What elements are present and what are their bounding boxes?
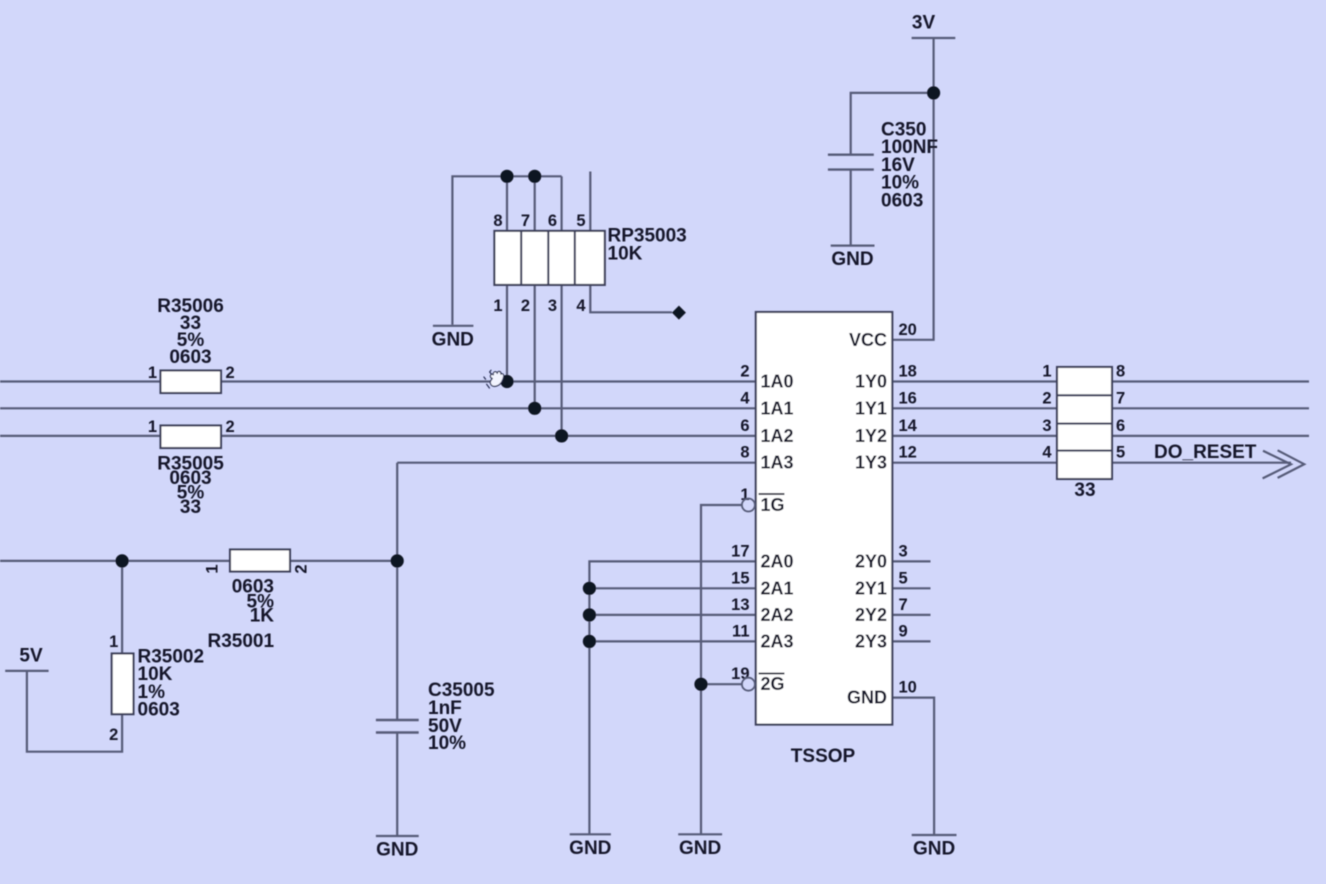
- ground symbol for RP35003: [432, 326, 474, 351]
- resistor pack 33 right: [1042, 363, 1125, 502]
- power symbol 5V: [5, 646, 48, 671]
- svg-text:GND: GND: [913, 839, 955, 860]
- svg-text:8: 8: [740, 444, 749, 462]
- wire 1G net: [701, 505, 742, 834]
- IC 2G invert bubble: [742, 678, 755, 691]
- wire node to C350: [851, 93, 934, 155]
- svg-text:2Y3: 2Y3: [855, 631, 887, 651]
- svg-text:14: 14: [899, 417, 918, 435]
- wire 2A2 net: [589, 614, 755, 616]
- svg-text:1Y2: 1Y2: [855, 426, 887, 446]
- wire 2A3 net: [589, 640, 755, 642]
- wire bus3 right segment: [892, 435, 1309, 437]
- wire RP35003 pin6 stub: [560, 176, 562, 231]
- wire 2Y2 stub: [892, 614, 930, 616]
- svg-text:2Y2: 2Y2: [855, 605, 887, 625]
- wire C35005 to ground: [396, 733, 398, 837]
- ground symbol for IC GND pin: [912, 835, 957, 860]
- wire 2Y0 stub: [892, 560, 930, 562]
- wire bus2 right segment: [892, 407, 1309, 409]
- wire R35002 top: [121, 561, 123, 654]
- svg-text:16: 16: [899, 389, 917, 407]
- wire 2Y3 stub: [892, 640, 930, 642]
- svg-text:0603: 0603: [138, 700, 180, 721]
- svg-text:0603: 0603: [169, 347, 211, 368]
- wire RP35003 pin7 stub: [534, 176, 536, 231]
- ground symbol for C35005: [376, 836, 419, 861]
- ground symbol for 1G 2G: [678, 834, 722, 859]
- wire RP35003 pin2 to bus2: [534, 285, 536, 408]
- IC right pin labels: [847, 330, 887, 708]
- svg-text:1: 1: [148, 418, 157, 436]
- svg-text:3: 3: [548, 297, 557, 315]
- svg-text:13: 13: [731, 596, 749, 614]
- wire RP35003 pin4 to port: [590, 285, 672, 312]
- svg-text:5V: 5V: [19, 646, 43, 667]
- svg-text:TSSOP: TSSOP: [791, 746, 856, 767]
- wire 1A3 net: [397, 462, 756, 464]
- svg-text:1: 1: [148, 364, 157, 382]
- wire R35001 net horizontal: [0, 560, 397, 562]
- wire RP35003 pin5 stub: [589, 172, 591, 231]
- svg-text:6: 6: [1116, 417, 1125, 435]
- svg-text:33: 33: [180, 497, 201, 518]
- resistor R35002: [109, 633, 204, 744]
- wire RP35003 top bus: [452, 176, 561, 324]
- svg-text:1Y1: 1Y1: [855, 398, 887, 418]
- junction dot 2A3: [583, 635, 596, 648]
- resistor pack RP35003: [493, 212, 686, 315]
- svg-text:6: 6: [548, 212, 557, 230]
- svg-text:15: 15: [731, 569, 749, 587]
- svg-text:2: 2: [109, 726, 118, 744]
- svg-text:1A2: 1A2: [761, 426, 794, 446]
- junction dot bus3: [555, 429, 568, 442]
- ground symbol for C350: [831, 246, 875, 270]
- svg-text:GND: GND: [831, 249, 873, 270]
- wire R35002 bottom to 5V: [27, 671, 122, 752]
- svg-text:1Y0: 1Y0: [855, 372, 887, 392]
- svg-text:1A0: 1A0: [761, 372, 794, 392]
- wire bus2 left segment: [0, 407, 756, 409]
- svg-text:3: 3: [1042, 417, 1051, 435]
- wire vertical node A to C35005: [396, 463, 398, 720]
- junction dot R35001 left: [116, 554, 129, 567]
- svg-text:DO_RESET: DO_RESET: [1154, 442, 1257, 463]
- wire node to VCC pin20: [892, 93, 933, 340]
- resistor R35006: [148, 296, 235, 393]
- svg-text:18: 18: [899, 363, 917, 381]
- wire bus3 left segment: [0, 435, 756, 437]
- capacitor C35005: [376, 680, 495, 754]
- svg-text:12: 12: [899, 444, 917, 462]
- wire bus1 left segment: [0, 380, 756, 382]
- svg-text:5: 5: [576, 212, 585, 230]
- mouse cursor hand icon: [484, 370, 504, 388]
- junction dot 2A1: [583, 582, 596, 595]
- svg-text:2A0: 2A0: [761, 551, 794, 571]
- svg-text:10%: 10%: [428, 733, 466, 754]
- svg-text:6: 6: [740, 417, 749, 435]
- svg-text:7: 7: [899, 596, 908, 614]
- svg-text:5: 5: [1116, 444, 1125, 462]
- junction dot RP top 2: [528, 170, 541, 183]
- IC 1G invert bubble: [742, 499, 755, 512]
- svg-text:10K: 10K: [608, 244, 643, 265]
- svg-text:8: 8: [493, 212, 502, 230]
- resistor R35005: [148, 418, 235, 518]
- svg-text:1: 1: [204, 564, 222, 573]
- svg-text:1A1: 1A1: [761, 398, 794, 418]
- junction dot 2A2: [583, 608, 596, 621]
- svg-text:10: 10: [899, 679, 917, 697]
- wire GND pin10: [892, 698, 934, 835]
- svg-text:17: 17: [731, 542, 749, 560]
- svg-text:3V: 3V: [912, 13, 936, 34]
- svg-text:11: 11: [732, 622, 749, 640]
- IC left pin labels: [761, 372, 794, 695]
- svg-text:GND: GND: [679, 838, 721, 859]
- junction dot 3V node: [927, 86, 940, 99]
- svg-text:1G: 1G: [761, 495, 785, 515]
- svg-text:2A2: 2A2: [761, 605, 794, 625]
- wire bus1 right segment: [892, 380, 1309, 382]
- svg-text:1Y3: 1Y3: [855, 453, 887, 473]
- svg-text:33: 33: [1074, 480, 1095, 501]
- svg-text:20: 20: [899, 321, 917, 339]
- junction dot 2G: [694, 678, 707, 691]
- svg-text:2Y1: 2Y1: [855, 578, 887, 598]
- svg-text:GND: GND: [376, 840, 418, 861]
- svg-text:4: 4: [740, 389, 750, 407]
- IC left pin numbers: [731, 363, 750, 684]
- svg-text:4: 4: [576, 297, 586, 315]
- svg-text:2: 2: [226, 418, 235, 436]
- svg-text:9: 9: [899, 622, 908, 640]
- svg-text:2A3: 2A3: [761, 631, 794, 651]
- svg-text:2: 2: [521, 297, 530, 315]
- svg-text:R35001: R35001: [208, 631, 275, 652]
- svg-text:19: 19: [731, 665, 749, 683]
- wire RP35003 pin1 to bus1: [506, 285, 508, 382]
- IC 2G overline: [759, 673, 785, 675]
- IC 1G overline: [759, 493, 785, 495]
- svg-text:2A1: 2A1: [761, 578, 794, 598]
- svg-text:8: 8: [1116, 363, 1125, 381]
- wire 2G stub: [701, 683, 742, 685]
- IC U1 TSSOP buffer: [756, 312, 893, 767]
- svg-text:0603: 0603: [881, 190, 923, 211]
- svg-text:2: 2: [293, 564, 311, 573]
- svg-text:GND: GND: [569, 838, 611, 859]
- wire RP35003 pin3 to bus3: [560, 285, 562, 436]
- svg-text:1: 1: [493, 297, 502, 315]
- svg-text:1: 1: [1042, 363, 1051, 381]
- svg-text:1A3: 1A3: [761, 453, 794, 473]
- svg-text:5: 5: [899, 569, 908, 587]
- svg-text:GND: GND: [432, 330, 474, 351]
- junction dot RP top 1: [500, 170, 513, 183]
- off-page connector chevron: [1263, 450, 1305, 478]
- wire C350 to ground: [850, 170, 852, 246]
- wire 2A1 net: [589, 587, 755, 589]
- svg-text:2Y0: 2Y0: [855, 551, 887, 571]
- wire DO_RESET net: [892, 462, 1291, 464]
- svg-text:2G: 2G: [761, 674, 785, 694]
- wire 3V to node: [932, 38, 934, 93]
- IC right pin numbers: [899, 321, 918, 697]
- svg-text:2: 2: [1042, 389, 1051, 407]
- svg-text:1: 1: [740, 486, 749, 504]
- port diamond: [672, 306, 686, 320]
- wire 2Y1 stub: [892, 587, 930, 589]
- junction dot R35001 right: [391, 554, 404, 567]
- svg-text:4: 4: [1042, 444, 1052, 462]
- power symbol 3V: [912, 13, 956, 39]
- svg-text:VCC: VCC: [849, 330, 887, 350]
- capacitor C350: [828, 120, 938, 212]
- svg-text:3: 3: [899, 542, 908, 560]
- svg-text:GND: GND: [847, 688, 887, 708]
- wire 2A0 net: [589, 561, 755, 834]
- svg-text:2: 2: [226, 364, 235, 382]
- wire RP35003 pin8 stub: [506, 176, 508, 231]
- junction dot bus1: [500, 375, 513, 388]
- svg-text:2: 2: [740, 363, 749, 381]
- svg-text:1: 1: [109, 633, 118, 651]
- ground symbol for 2A nets: [569, 834, 611, 859]
- svg-text:1K: 1K: [250, 606, 275, 627]
- svg-text:7: 7: [1116, 389, 1125, 407]
- junction dot bus2: [528, 402, 541, 415]
- svg-text:7: 7: [521, 212, 530, 230]
- resistor R35001: [204, 550, 311, 653]
